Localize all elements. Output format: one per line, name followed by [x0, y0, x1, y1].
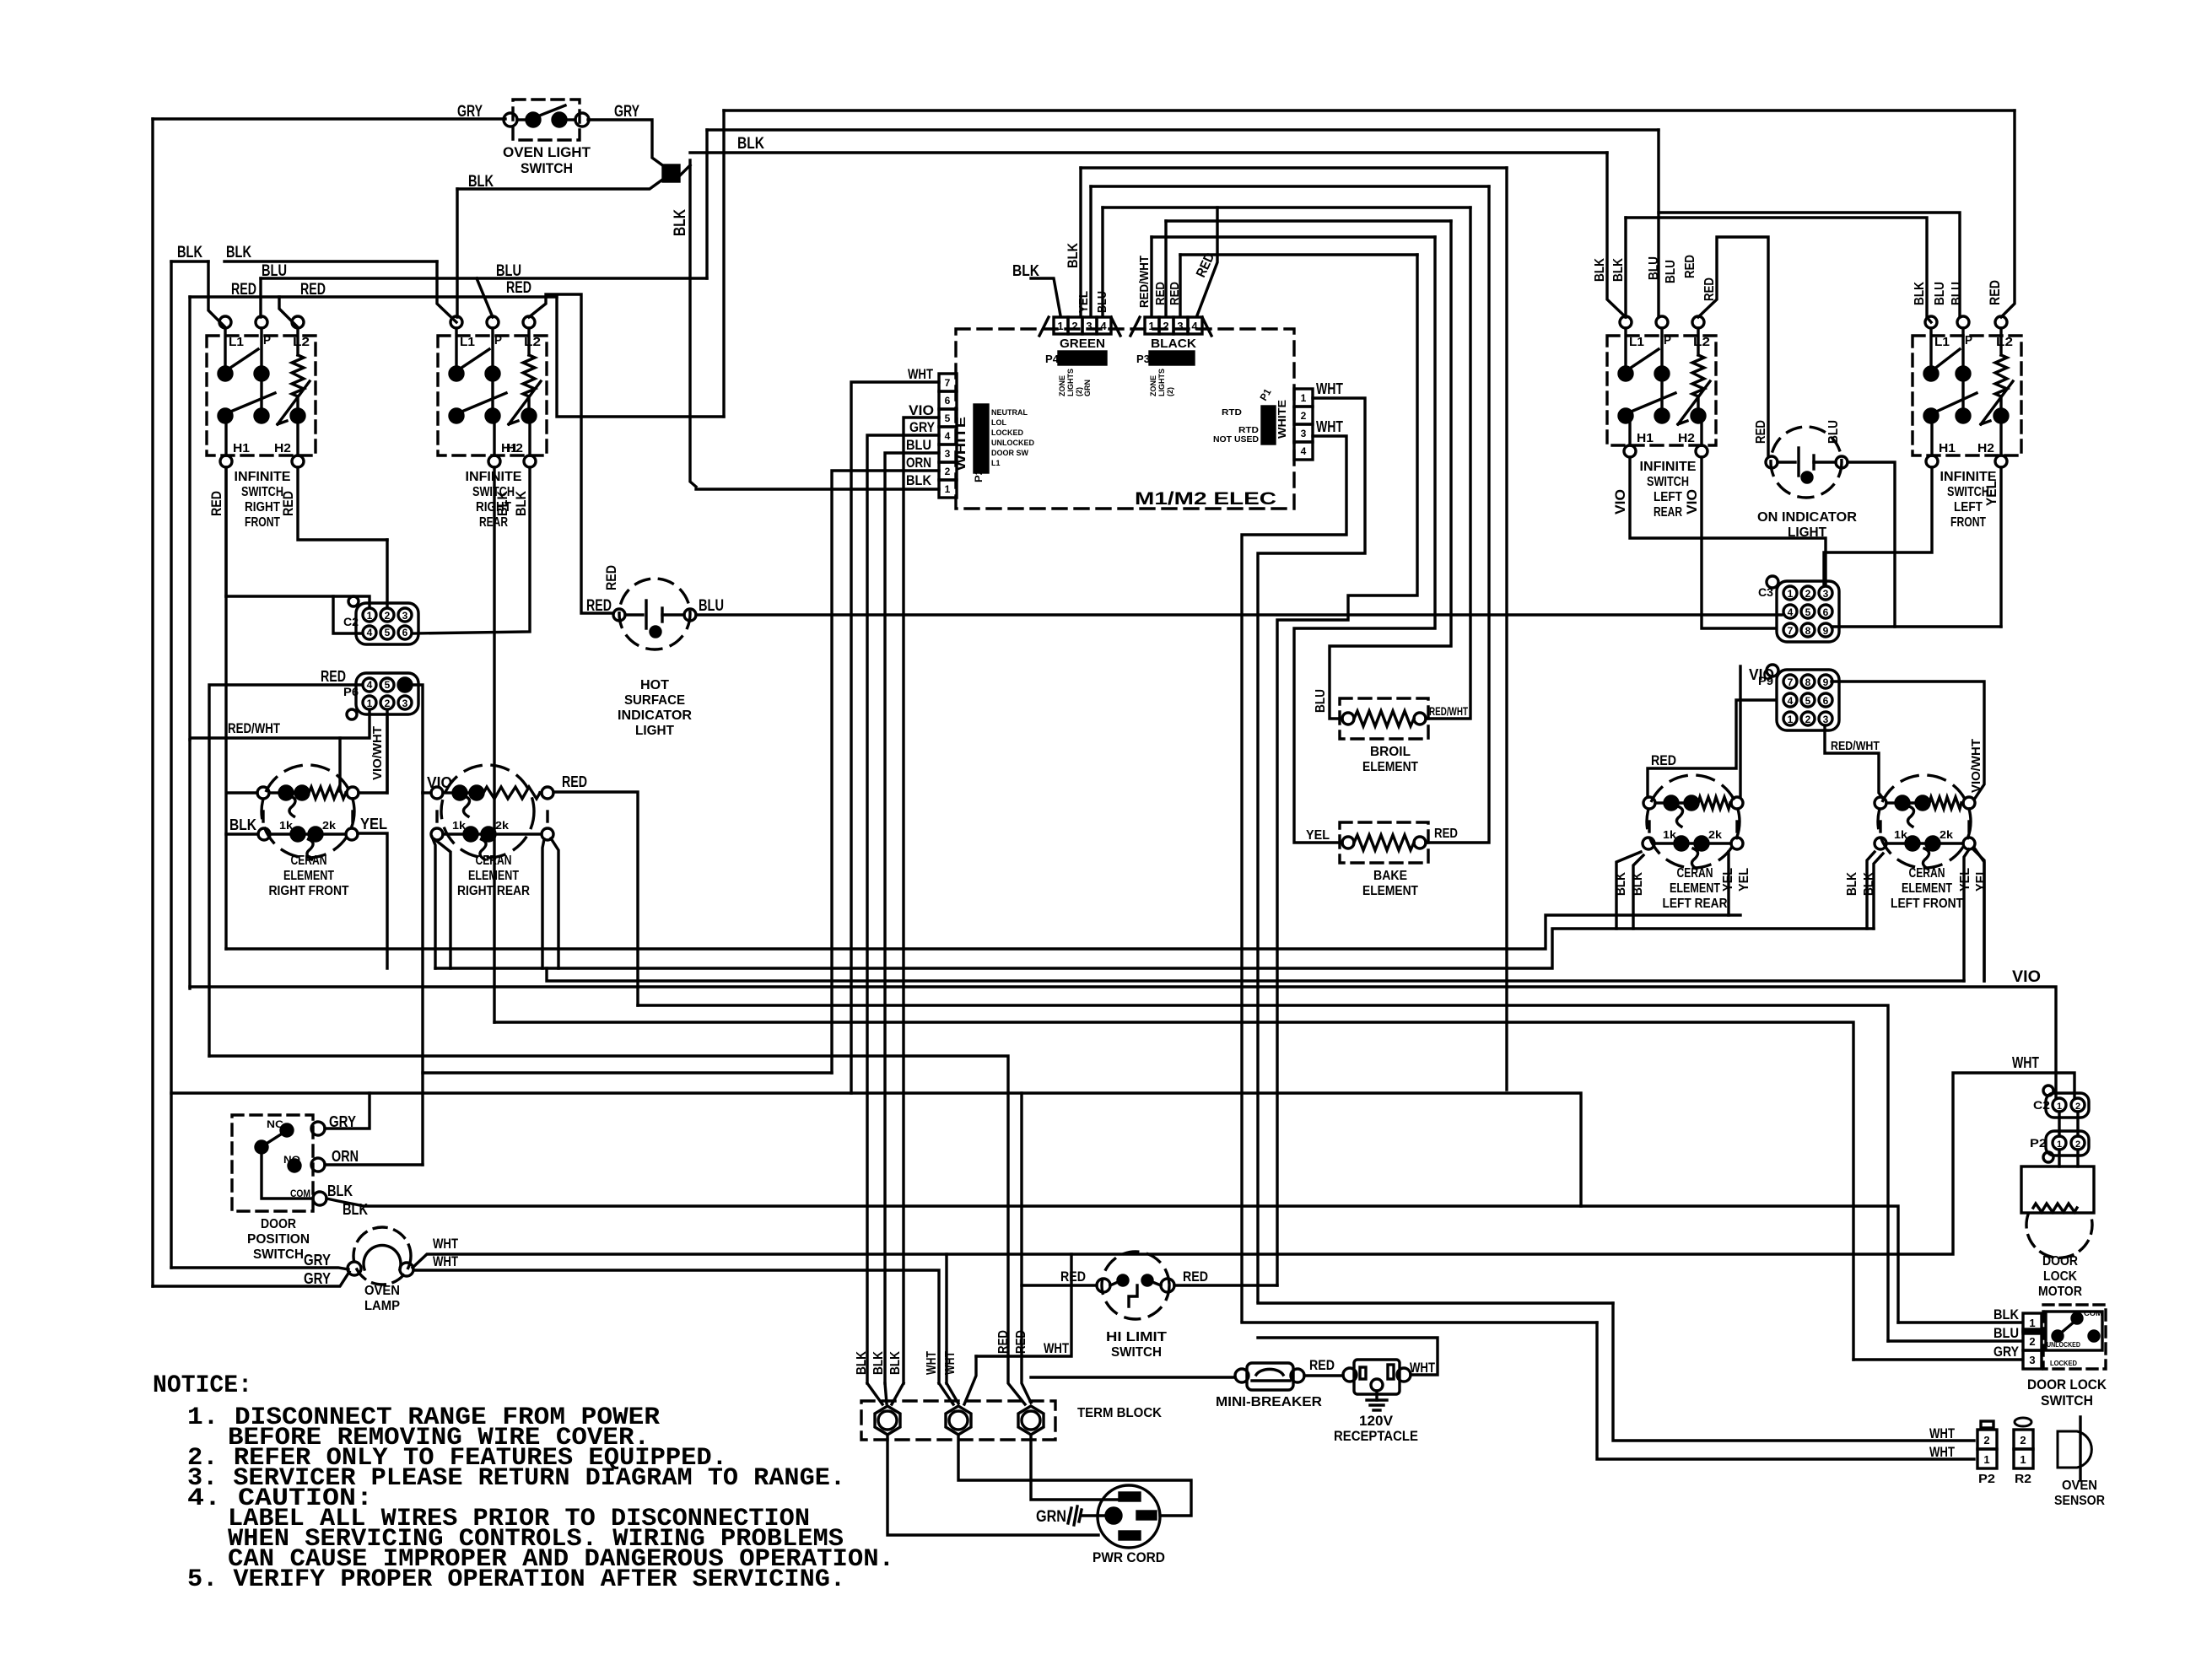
svg-text:1: 1: [367, 610, 373, 622]
svg-text:RED: RED: [1153, 282, 1168, 305]
svg-text:GRY: GRY: [304, 1252, 331, 1269]
svg-text:UNLOCKED: UNLOCKED: [991, 439, 1034, 447]
wire RED/WHT P9 to CELF: [1825, 725, 1884, 800]
wire WHT fan T2: [939, 1383, 953, 1404]
svg-text:INFINITE: INFINITE: [235, 470, 291, 484]
svg-text:BLU: BLU: [496, 262, 521, 280]
wire CELF BLK b: [1874, 854, 1883, 929]
svg-text:3: 3: [402, 610, 408, 622]
wire YEL ISLF H2 down: [1999, 467, 2002, 627]
wire BLU y252 to ISLF P: [1659, 213, 1960, 317]
ceran element right front: [257, 765, 359, 898]
svg-text:RED: RED: [603, 565, 619, 590]
svg-text:GRY: GRY: [304, 1270, 331, 1287]
svg-text:SWITCH: SWITCH: [241, 485, 283, 499]
svg-text:BLU: BLU: [699, 597, 724, 615]
svg-text:BAKE: BAKE: [1373, 869, 1407, 883]
connector P6: [343, 673, 418, 719]
svg-text:LOCKED: LOCKED: [991, 428, 1024, 437]
svg-text:RED: RED: [321, 668, 346, 685]
svg-text:P2: P2: [1978, 1472, 1995, 1486]
svg-text:BLU: BLU: [1993, 1325, 2019, 1341]
svg-text:DOOR: DOOR: [2042, 1254, 2078, 1269]
svg-text:SWITCH: SWITCH: [2041, 1393, 2093, 1409]
svg-text:RED: RED: [280, 491, 296, 516]
door lock motor: [2021, 1150, 2094, 1299]
pwr cord: [1093, 1485, 1165, 1565]
bus VIO y1170: [190, 987, 2056, 1098]
bus GRY y1296: [171, 1093, 1581, 1206]
svg-text:RECEPTACLE: RECEPTACLE: [1334, 1428, 1418, 1444]
wire BLK junction diag to bus: [677, 165, 690, 178]
svg-text:BLK: BLK: [327, 1182, 353, 1199]
wire BLK riser to ISRF L1: [208, 261, 225, 327]
svg-text:PWR CORD: PWR CORD: [1093, 1549, 1165, 1565]
svg-text:CERAN: CERAN: [1909, 866, 1945, 881]
svg-text:VIO: VIO: [1749, 666, 1774, 683]
wire P6 pin6 to CERR VIO: [413, 685, 423, 793]
svg-text:WHT: WHT: [1044, 1340, 1069, 1356]
wire BLK y258 to ISLF L1: [1626, 218, 1931, 322]
svg-text:2: 2: [1301, 410, 1307, 422]
wire staircase y302: [1180, 253, 1417, 256]
wire BLU ON light right: [1848, 462, 1895, 627]
svg-text:2: 2: [2020, 1434, 2026, 1446]
svg-text:ORN: ORN: [332, 1148, 359, 1165]
svg-text:3: 3: [1823, 588, 1829, 600]
svg-text:RIGHT FRONT: RIGHT FRONT: [269, 884, 349, 898]
svg-text:VIO: VIO: [2012, 968, 2041, 986]
svg-text:2: 2: [1163, 320, 1168, 332]
svg-text:(2): (2): [1166, 387, 1174, 396]
svg-text:4: 4: [367, 679, 373, 691]
oven sensor bulb: [2054, 1417, 2105, 1508]
door lock switch: [2023, 1305, 2107, 1409]
svg-text:C2: C2: [2033, 1098, 2050, 1112]
svg-text:WHT: WHT: [925, 1351, 939, 1375]
svg-text:2: 2: [2075, 1139, 2080, 1150]
wire WHT P1 pin1: [1258, 398, 1365, 1301]
svg-text:L2: L2: [1693, 335, 1710, 349]
junction node: [663, 165, 679, 181]
wire WHT receptacle return: [1258, 1338, 1438, 1375]
wire BLU top y154: [707, 128, 1659, 131]
wire RED ISRR L2 to HSI riser: [529, 294, 613, 613]
svg-text:BLU: BLU: [262, 262, 287, 280]
svg-text:SWITCH: SWITCH: [1111, 1345, 1162, 1360]
svg-text:MINI-BREAKER: MINI-BREAKER: [1216, 1395, 1322, 1409]
svg-text:ELEMENT: ELEMENT: [1902, 881, 1952, 896]
svg-text:CERAN: CERAN: [1677, 866, 1713, 881]
svg-text:1k: 1k: [279, 819, 294, 832]
wire C3 pin9 to YEL junction: [1832, 625, 2001, 628]
svg-text:BLK: BLK: [737, 135, 764, 153]
svg-text:ON INDICATOR: ON INDICATOR: [1757, 510, 1857, 525]
svg-text:COM: COM: [2084, 1309, 2102, 1317]
ceran element left rear: [1643, 775, 1743, 911]
svg-text:ELEMENT: ELEMENT: [1362, 760, 1418, 774]
svg-text:SWITCH: SWITCH: [253, 1247, 304, 1262]
svg-text:9: 9: [1823, 625, 1829, 637]
svg-text:RED/WHT: RED/WHT: [1429, 704, 1468, 718]
svg-text:L1: L1: [991, 459, 1001, 467]
svg-text:ELEMENT: ELEMENT: [1362, 884, 1418, 898]
svg-text:HOT: HOT: [640, 678, 669, 692]
svg-text:RED: RED: [1434, 827, 1458, 841]
svg-text:1: 1: [1983, 1453, 1989, 1466]
svg-text:TERM BLOCK: TERM BLOCK: [1077, 1406, 1162, 1420]
svg-text:BLK: BLK: [343, 1201, 368, 1218]
svg-text:BLACK: BLACK: [1151, 337, 1196, 351]
svg-text:WHITE: WHITE: [1276, 400, 1288, 439]
svg-text:2: 2: [2075, 1102, 2080, 1112]
svg-text:BLK: BLK: [672, 209, 689, 236]
wire RED diag to ISRF L2: [279, 297, 298, 327]
svg-text:RED: RED: [996, 1330, 1011, 1354]
svg-text:REAR: REAR: [1654, 505, 1682, 520]
svg-text:RED: RED: [208, 491, 224, 516]
wire RED y131 drop to ISLF L2: [2001, 110, 2015, 317]
svg-text:BLK: BLK: [1065, 242, 1081, 268]
svg-text:5: 5: [385, 679, 391, 691]
svg-text:M1/M2 ELEC: M1/M2 ELEC: [1135, 489, 1276, 509]
svg-text:L1: L1: [1629, 335, 1644, 349]
wire GRN to pwr cord: [1082, 1514, 1106, 1516]
connector C2: [343, 596, 418, 644]
svg-text:1: 1: [1788, 588, 1794, 600]
svg-text:BLU: BLU: [1950, 282, 1964, 305]
wire GRY left bus vertical: [151, 119, 154, 1286]
svg-text:WHT: WHT: [1929, 1425, 1955, 1441]
svg-text:YEL: YEL: [1983, 481, 1999, 506]
svg-text:BLK: BLK: [1913, 282, 1927, 305]
wire VIO ISLF H1 to C3: [1824, 467, 1932, 585]
svg-text:BLK: BLK: [906, 472, 932, 488]
wire RED bus: [190, 295, 557, 298]
wire VIO ISLR H2 to C3 pin7: [1702, 457, 1775, 628]
infinite switch right rear: [438, 316, 547, 530]
wire bundle x1743 to broil right: [1426, 207, 1470, 719]
wire BLK T1 mid: [885, 1383, 887, 1403]
svg-text:2: 2: [1805, 714, 1811, 725]
svg-text:GRY: GRY: [614, 103, 639, 121]
svg-text:3: 3: [1301, 428, 1307, 439]
wire WHT lamp lower: [413, 1270, 939, 1383]
svg-text:7: 7: [1788, 625, 1794, 637]
svg-text:RED/WHT: RED/WHT: [1831, 739, 1880, 753]
svg-text:2k: 2k: [495, 819, 510, 832]
svg-text:BLU: BLU: [1933, 282, 1947, 305]
wire CERF BLK bottom stub: [226, 832, 258, 835]
svg-text:WHT: WHT: [1316, 418, 1343, 435]
wire bundle x1786 to bottom bus: [1505, 168, 1508, 1090]
svg-text:HI LIMIT: HI LIMIT: [1106, 1330, 1167, 1344]
wire P6 pin1 down RED/WHT: [192, 712, 370, 738]
svg-text:3: 3: [1823, 714, 1829, 725]
wire P6 pin2 down VIO/WHT: [386, 712, 388, 793]
connector R2 oven sensor: [2014, 1418, 2033, 1486]
wire BLK T1 to pwr cord: [887, 1435, 1098, 1535]
svg-text:1: 1: [2057, 1102, 2062, 1112]
svg-text:P: P: [494, 333, 502, 347]
svg-text:(2): (2): [1075, 387, 1083, 396]
bus RED y1252: [209, 1056, 1025, 1404]
svg-text:8: 8: [1805, 625, 1811, 637]
svg-text:BLK: BLK: [1845, 872, 1859, 896]
wire CELR YEL a: [1727, 852, 1729, 915]
svg-text:WHT: WHT: [433, 1253, 458, 1269]
wire WHT fan T2 b: [947, 1383, 958, 1403]
svg-text:RED: RED: [506, 279, 531, 297]
wire BLU bus riser x838: [705, 130, 708, 278]
svg-text:LOCKED: LOCKED: [2050, 1360, 2077, 1367]
wire BLU diag to ISRR P: [477, 278, 493, 317]
svg-text:SWITCH: SWITCH: [521, 160, 573, 176]
svg-text:H1: H1: [1939, 441, 1956, 455]
wire CELR BLK b: [1633, 855, 1643, 929]
bus WHT y1568: [1242, 1321, 1597, 1323]
svg-text:BLK: BLK: [226, 244, 251, 261]
svg-text:2: 2: [1805, 588, 1811, 600]
svg-text:LOCK: LOCK: [2043, 1269, 2077, 1284]
wire BLK stub to ISRF riser: [171, 260, 208, 262]
svg-text:5: 5: [385, 627, 391, 638]
svg-text:H2: H2: [274, 441, 291, 455]
svg-text:DOOR SW: DOOR SW: [991, 449, 1029, 457]
svg-text:2: 2: [1071, 320, 1077, 332]
wire ISRF H1 to C2: [224, 467, 227, 596]
wire BLK ISLR L1 second: [1624, 218, 1627, 317]
svg-text:3: 3: [1086, 320, 1092, 332]
wire BLK y181 drop ISLR L1: [1607, 153, 1626, 317]
wire BLK into P4 pin1: [1031, 278, 1060, 315]
wire CERR YEL bottom fan: [542, 839, 544, 968]
svg-text:CERAN: CERAN: [291, 854, 327, 868]
connector P3: [1130, 317, 1211, 396]
svg-text:L1: L1: [229, 335, 244, 349]
wire CELF YEL riser b: [1974, 848, 1984, 981]
svg-text:GRY: GRY: [1993, 1344, 2020, 1360]
svg-text:2k: 2k: [322, 819, 337, 832]
wire RED CERR to bus riser: [553, 792, 638, 1005]
wire staircase y281: [1152, 235, 1435, 238]
wire RED P9 pin4 to CELR: [1648, 700, 1775, 797]
svg-text:3: 3: [945, 448, 951, 460]
svg-text:NOTICE:: NOTICE:: [153, 1371, 252, 1400]
svg-text:YEL: YEL: [360, 816, 387, 832]
svg-text:6: 6: [402, 627, 408, 638]
svg-text:4: 4: [1788, 695, 1794, 707]
wire C2 to P2 door lock b: [2076, 1112, 2079, 1136]
wire ISRR H2 to C2 pin6: [413, 467, 530, 633]
svg-text:3: 3: [2029, 1354, 2035, 1366]
svg-text:P4: P4: [1045, 353, 1060, 365]
wire bundle x1701 to bake left: [1294, 237, 1435, 843]
wire VIO ISLR H1 to C3 pin3: [1630, 457, 1826, 585]
oven light switch: [457, 100, 639, 176]
connector P2 WHITE: [939, 374, 1034, 498]
svg-text:7: 7: [945, 377, 951, 389]
wire CERF top left stub: [227, 791, 257, 794]
svg-text:RED/WHT: RED/WHT: [228, 720, 280, 736]
wire CELF YEL riser a: [1964, 849, 1969, 981]
svg-text:NEUTRAL: NEUTRAL: [991, 408, 1028, 417]
wire CELR top right riser: [1739, 666, 1741, 797]
svg-text:3: 3: [402, 698, 408, 709]
wire WHT bus to door lock C2: [947, 1073, 2074, 1254]
svg-text:6: 6: [1823, 695, 1829, 707]
wire YEL P4 pin3 riser: [1089, 186, 1092, 315]
svg-text:4: 4: [367, 627, 373, 638]
wire GRY lamp lower: [153, 1272, 349, 1286]
svg-text:2: 2: [385, 610, 391, 622]
wire WHT T2 to minibreaker area: [976, 1254, 1071, 1356]
svg-text:BLK: BLK: [888, 1351, 903, 1375]
svg-text:LEFT: LEFT: [1954, 500, 1983, 514]
svg-text:WHT: WHT: [1410, 1360, 1435, 1376]
wire BLU P4 pin4 riser: [1101, 207, 1103, 315]
svg-text:C2: C2: [343, 615, 359, 628]
wire staircase y262: [1166, 219, 1451, 222]
svg-text:OVEN LIGHT: OVEN LIGHT: [503, 144, 591, 160]
svg-text:FRONT: FRONT: [245, 515, 280, 530]
wire BLK riser down to P2 pin1: [690, 160, 696, 487]
svg-text:BLU: BLU: [1664, 260, 1678, 283]
svg-text:H1: H1: [1637, 431, 1654, 445]
svg-text:SWITCH: SWITCH: [1647, 475, 1689, 489]
svg-text:SURFACE: SURFACE: [624, 693, 685, 708]
svg-text:1: 1: [2020, 1453, 2026, 1466]
svg-text:4: 4: [945, 430, 951, 442]
hi limit switch: [1097, 1252, 1174, 1360]
wire bundle x1720 to broil left: [1330, 221, 1451, 719]
wire WHT P2 pin7: [851, 382, 939, 1093]
svg-text:RIGHT: RIGHT: [245, 500, 280, 514]
svg-text:RTD: RTD: [1222, 408, 1242, 417]
svg-text:POSITION: POSITION: [247, 1232, 310, 1247]
wire GRY door switch riser: [325, 1093, 370, 1129]
svg-text:RED: RED: [1309, 1357, 1335, 1373]
svg-text:RED: RED: [1183, 1269, 1208, 1285]
wire ORN P2 pin2: [832, 471, 939, 1073]
svg-text:LEFT REAR: LEFT REAR: [1663, 897, 1728, 911]
svg-text:RED: RED: [231, 281, 256, 299]
svg-text:1k: 1k: [452, 819, 467, 832]
svg-text:SENSOR: SENSOR: [2054, 1494, 2105, 1508]
wire RED ISLR L2 to ON light: [1698, 237, 1768, 456]
svg-text:P: P: [1664, 333, 1671, 347]
wire CERR BLK bottom fan b: [434, 839, 450, 968]
svg-text:VIO: VIO: [909, 402, 934, 418]
wire GRY oven light switch to junction: [588, 120, 671, 171]
svg-text:WHT: WHT: [943, 1351, 958, 1375]
wire C2 pin4 branch: [333, 596, 362, 633]
wire BLK bus top: [690, 151, 1607, 154]
bus y1212 to door lock GRY: [494, 1022, 1853, 1360]
svg-text:4: 4: [1301, 445, 1307, 457]
wire CERF top right riser VIO/WHT: [359, 718, 387, 793]
svg-text:L2: L2: [524, 335, 541, 349]
wire staircase y246: [1103, 206, 1470, 208]
svg-text:GRY: GRY: [457, 103, 483, 121]
connector P2 door lock: [2030, 1131, 2089, 1162]
svg-text:DOOR: DOOR: [261, 1217, 296, 1231]
svg-text:1: 1: [2057, 1139, 2062, 1150]
wire WHT T2 down: [958, 1435, 1191, 1516]
svg-text:YEL: YEL: [1737, 868, 1751, 892]
svg-text:RED/WHT: RED/WHT: [1137, 256, 1152, 308]
wire GRY from left bus to oven light switch: [153, 117, 505, 120]
hot surface indicator light: [613, 579, 696, 738]
svg-text:FRONT: FRONT: [1950, 515, 1986, 530]
svg-text:BLK: BLK: [468, 173, 494, 191]
wire WHT P1 pin3: [1242, 436, 1346, 1321]
wire BLK riser down to ISRR L1: [456, 189, 458, 317]
wire BLK P2 pin1: [696, 488, 939, 490]
svg-text:BLU: BLU: [906, 437, 931, 453]
svg-text:9: 9: [1823, 676, 1829, 688]
svg-text:WHT: WHT: [2012, 1054, 2039, 1071]
wire GRY second vertical: [170, 261, 172, 1268]
svg-text:1: 1: [367, 698, 373, 709]
svg-text:RED: RED: [1651, 752, 1676, 768]
svg-text:VIO: VIO: [1684, 489, 1700, 514]
svg-text:2: 2: [385, 698, 391, 709]
svg-text:5: 5: [945, 412, 951, 424]
connector P9: [1758, 665, 1839, 730]
broil element: [1340, 698, 1428, 774]
wire BLK fan T1 a: [867, 1383, 882, 1404]
svg-text:RED: RED: [1754, 420, 1768, 444]
svg-text:1: 1: [1788, 714, 1794, 725]
svg-text:1: 1: [945, 483, 951, 495]
wire BLU y154 drop ISLR P: [1657, 130, 1659, 317]
wire VIO P2 pin5: [904, 417, 939, 1383]
svg-text:RED: RED: [1683, 255, 1697, 278]
wire RED/WHT P3 pin1 riser: [1150, 237, 1152, 315]
svg-text:YEL: YEL: [1306, 828, 1330, 843]
wire RED T3 to hi-limit: [1022, 1284, 1097, 1286]
wire bundle x1765 to bake right: [1426, 186, 1489, 843]
wire BLU drop to ISRF P: [259, 278, 262, 317]
svg-text:2: 2: [1983, 1434, 1989, 1446]
svg-text:WHT: WHT: [908, 366, 933, 382]
svg-text:INFINITE: INFINITE: [1640, 460, 1697, 474]
svg-text:RED: RED: [300, 281, 326, 299]
svg-text:RED: RED: [586, 597, 612, 615]
wire staircase y221: [1091, 185, 1489, 187]
svg-text:7: 7: [1788, 676, 1794, 688]
svg-text:L1: L1: [460, 335, 475, 349]
wire CELF YEL a: [1974, 850, 1984, 981]
wire CERR YEL vertical b: [551, 838, 558, 968]
svg-text:ELEMENT: ELEMENT: [283, 869, 334, 883]
svg-text:BLK: BLK: [871, 1351, 886, 1375]
wire BLU bus: [261, 277, 707, 279]
svg-text:LIGHT: LIGHT: [635, 724, 674, 738]
svg-text:6: 6: [1823, 606, 1829, 618]
svg-text:1: 1: [2029, 1317, 2035, 1329]
svg-text:4: 4: [1191, 320, 1198, 332]
wire BLU bus from HSI to right side: [696, 613, 1782, 616]
wire bundle x1680 to hi-limit jog: [1277, 255, 1417, 1285]
wire RED T3 b: [1022, 1093, 1031, 1403]
svg-text:BROIL: BROIL: [1370, 745, 1411, 759]
term block: [861, 1401, 1162, 1440]
svg-text:ELEMENT: ELEMENT: [1670, 881, 1720, 896]
svg-text:6: 6: [945, 395, 951, 407]
svg-text:2: 2: [2029, 1335, 2035, 1348]
